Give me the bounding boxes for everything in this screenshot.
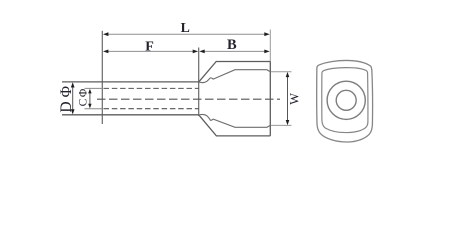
- hidden line inner wall bottom: [104, 108, 199, 110]
- tube top outline: [62, 81, 199, 83]
- end view outer outline: [317, 60, 373, 142]
- dimension B line: [204, 50, 265, 52]
- funnel inner contour top: [199, 70, 270, 83]
- C extension bottom: [85, 108, 103, 110]
- extension line right (collar right): [269, 30, 271, 62]
- arrow L left: [103, 32, 108, 36]
- C extension top: [85, 87, 103, 89]
- dimension W line: [287, 75, 289, 123]
- arrow F right: [193, 50, 198, 54]
- hidden line inner wall top: [104, 87, 199, 89]
- collar right edge: [269, 62, 271, 136]
- center line: [97, 98, 280, 100]
- funnel outer bottom: [199, 115, 270, 136]
- arrow C top: [88, 89, 91, 94]
- ferrule barrel circle outer: [327, 81, 365, 119]
- svg-text:CΦ: CΦ: [78, 87, 90, 106]
- W extension bottom: [271, 124, 292, 126]
- dimension F line: [108, 50, 194, 52]
- dimension C line: [89, 91, 91, 107]
- end view inner outline: [322, 68, 368, 133]
- extension line left (tube left end): [101, 31, 103, 124]
- arrow L right: [264, 32, 269, 36]
- extension line mid (tube/funnel joint): [198, 48, 200, 116]
- arrow B left: [199, 50, 204, 54]
- funnel outer top: [199, 62, 270, 82]
- dimension L line: [108, 33, 266, 35]
- svg-text:B: B: [227, 37, 237, 53]
- wire hole circle inner: [336, 90, 356, 110]
- arrow C bottom: [88, 104, 91, 109]
- svg-text:W: W: [287, 93, 301, 105]
- dimension D line: [72, 85, 74, 112]
- svg-text:DΦ: DΦ: [58, 82, 75, 113]
- tube bottom outline: [62, 114, 199, 116]
- arrow F left: [103, 50, 108, 54]
- arrow W top: [286, 72, 290, 77]
- arrow B right: [264, 50, 269, 54]
- funnel inner contour bottom: [199, 114, 270, 127]
- svg-text:F: F: [145, 39, 154, 54]
- arrow D top: [71, 82, 75, 87]
- arrow D bottom: [71, 109, 75, 114]
- arrow W bottom: [286, 120, 290, 125]
- svg-text:L: L: [181, 20, 190, 35]
- W extension top: [271, 71, 292, 73]
